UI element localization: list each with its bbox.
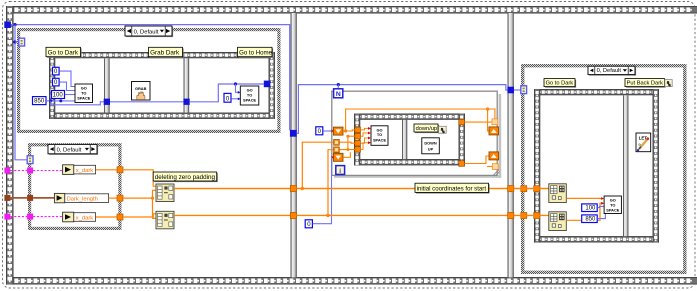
frame label Go to Home	[238, 47, 274, 58]
wire long orange 2 frame1 part	[174, 214, 290, 216]
node junction dot on 850 wire (1)	[49, 99, 52, 102]
tunnel separator B/C (blue)	[183, 99, 189, 105]
wire x_dark2 magenta outside	[10, 216, 27, 218]
constant 0 (SR1 init)	[316, 127, 323, 135]
op Array Subset 1	[156, 184, 174, 202]
wire main blue across top and down to separator 1	[11, 25, 290, 131]
shift register right 2 (up)	[489, 152, 499, 160]
pin coercion arrow case3 #1	[601, 197, 604, 200]
inner sequence 3 bottom film band	[534, 236, 659, 242]
wire 850 to subVI bottom	[597, 214, 605, 219]
tunnel x_dark2 case2 (magenta)	[27, 214, 33, 220]
tunnel separator2 blue	[507, 87, 514, 94]
wire T3 to subVI	[360, 138, 368, 143]
inner sequence 3 left film band	[534, 89, 540, 243]
svg-text:down/up?: down/up?	[416, 126, 441, 132]
wire orange 2 into index array 2	[514, 214, 549, 216]
inner sequence 2 top film band	[354, 114, 465, 120]
wire stub bottom-right tunnel	[487, 166, 492, 168]
wire branch to case-1 selector	[15, 41, 19, 43]
wire x_dark1 out (orange)	[96, 169, 117, 171]
inner sequence 2 left film band	[354, 114, 360, 166]
tunnel x_dark1 outer (magenta)	[4, 168, 10, 174]
wire Dark_length to junction	[123, 197, 153, 199]
svg-text:0, Default: 0, Default	[134, 30, 159, 36]
node junction orange A	[301, 187, 304, 190]
op sub-VI DOWN UP	[422, 138, 440, 154]
wire T1 to subVI	[360, 128, 368, 130]
constant 0 (frame 1A #2)	[53, 78, 60, 86]
outer flat sequence left film band	[6, 6, 14, 285]
tunnel separator2 orange 1	[508, 186, 514, 192]
svg-text:UP: UP	[428, 147, 434, 152]
op Index Array 2	[549, 212, 567, 231]
case 3 selector label 0, Default	[588, 66, 636, 76]
wire blue to case3 selector	[514, 89, 521, 91]
inner sequence 3 top film band	[534, 89, 659, 95]
case 2 selector label 0, Default	[48, 144, 98, 155]
svg-text:x_dark: x_dark	[76, 168, 94, 174]
case 1 selector tunnel	[19, 38, 25, 46]
op sub-VI GO TO SPACE (case 3)	[604, 196, 621, 214]
wire branch up to loop tunnel B	[328, 150, 334, 216]
case structure 1 border	[17, 28, 281, 133]
svg-text:100: 100	[585, 206, 596, 212]
local variable x_dark (1)	[63, 165, 96, 175]
outer sequence frame separator 1	[291, 13, 297, 277]
wire bottom 0 up to SR2	[313, 157, 332, 223]
svg-text:850: 850	[585, 217, 596, 223]
tunnel case2 right 3 (orange)	[117, 214, 123, 220]
wire 0 to subVI input	[231, 98, 238, 100]
wire orange 1 into index array 1	[514, 188, 549, 190]
wire branch up to loop tunnel A	[302, 142, 333, 188]
wire selector feed down left side	[15, 25, 27, 160]
node junction at T2 wire	[346, 135, 349, 138]
wire lower branch to separator tunnel	[51, 101, 104, 105]
inner sequence 1 right film band	[269, 52, 275, 119]
inner sequence 1 separator B/C	[184, 58, 190, 112]
case 2 selector tunnel	[27, 156, 33, 164]
tunnel separator1 orange 2	[290, 212, 296, 218]
tunnel loop-right bottom (hollow)	[492, 164, 498, 170]
svg-text:850: 850	[34, 99, 45, 105]
wire branch down to array subset 2	[153, 198, 157, 218]
wire Dark_length brown outside	[10, 197, 27, 199]
svg-text:SPACE: SPACE	[243, 98, 257, 103]
local variable x_dark (2)	[63, 212, 96, 222]
constant 850 (frame 1A)	[33, 97, 47, 105]
wire over top of inner sequence to SR right 1	[346, 109, 489, 131]
inner sequence 2 separator	[402, 120, 407, 159]
wire T4 to subVI	[360, 143, 368, 150]
inner sequence 1 top film band	[49, 52, 275, 58]
op LET write icon (Put Back Dark frame)	[636, 133, 651, 152]
svg-text:Go to Home: Go to Home	[239, 50, 272, 57]
constant 0 (frame 1C)	[224, 93, 231, 102]
wire Tr2 to SR right 2	[464, 156, 489, 164]
wire tunnel1 to array subset 1	[123, 170, 156, 186]
wire long orange 1 frame1 part	[174, 188, 290, 190]
label deleting zero padding	[153, 172, 218, 182]
outer flat sequence bottom film band	[6, 277, 697, 285]
case 3 selector tunnel	[521, 86, 527, 94]
constant 100 (case 3)	[582, 204, 598, 212]
tunnel T3	[355, 140, 361, 146]
wire 850 to subVI	[46, 100, 75, 102]
wire SR1 to T1	[343, 130, 355, 131]
node junction dot on 850 wire (2)	[59, 99, 62, 102]
svg-text:i: i	[339, 168, 341, 175]
tunnel main input (blue, outer left band)	[4, 21, 11, 28]
wire to N terminal	[337, 85, 339, 89]
svg-text:N: N	[336, 91, 341, 98]
frame label Go to Dark	[46, 47, 82, 58]
inner sequence 1 bottom film band	[49, 113, 275, 119]
pin coercion dot SR2	[331, 156, 334, 159]
shift register left 1 (down)	[333, 127, 343, 135]
svg-text:initial coordinates for start: initial coordinates for start	[417, 185, 487, 192]
pin input arrow 2 (frame 1C)	[238, 98, 241, 101]
wire long orange 2 frame2 part	[297, 214, 508, 216]
wire Tr1 to loop tunnel	[464, 121, 492, 123]
wire tunnel3 to array subset 2	[123, 214, 156, 217]
wire branch down into subVI	[236, 84, 239, 92]
outer flat sequence top film band	[6, 6, 697, 14]
wire N feed up and across to frame 3	[297, 85, 508, 134]
wire 100 to subVI	[597, 206, 604, 207]
frame label Put Back Dark	[625, 79, 666, 88]
wire x_dark2 magenta inside	[33, 216, 62, 218]
wire x_dark1 magenta inside	[33, 170, 62, 172]
wire 0#1 to subVI	[59, 71, 75, 86]
wire branch up to array subset 1	[153, 190, 157, 198]
wire x_dark1 magenta outside	[10, 170, 27, 172]
svg-text:GRAB: GRAB	[135, 86, 147, 91]
node junction orange B	[326, 214, 329, 217]
tunnel loop-right top (hollow)	[492, 119, 498, 125]
inner sequence 2 right film band	[459, 114, 465, 166]
wire long orange 1 frame2 part	[297, 188, 508, 190]
for loop border	[332, 91, 501, 178]
frame label Grab Dark	[149, 47, 184, 58]
wire 0 to SR1	[323, 130, 332, 132]
svg-text:0, Default: 0, Default	[57, 147, 82, 153]
wire pass through frame B	[110, 101, 183, 103]
inner sequence 1 separator A/B	[104, 58, 110, 112]
tunnel separator A/B (blue)	[104, 99, 110, 105]
tunnel x_dark1 case2 (magenta)	[27, 168, 33, 174]
icon cursor glyph beside down/up	[439, 126, 447, 133]
node junction top right	[486, 107, 489, 110]
wire frame C rise and run	[190, 84, 264, 102]
tunnel case2 right 2 (orange)	[117, 195, 123, 201]
node junction at case-1 selector branch	[13, 40, 16, 43]
tunnel T1 inner seq2 left	[355, 127, 361, 133]
for loop i terminal	[336, 166, 345, 175]
tunnel inner seq2 right 1	[459, 119, 465, 125]
node junction TB branch	[346, 148, 349, 151]
tunnel separator1 orange 1	[290, 186, 296, 192]
wire SR2 short riser	[343, 152, 350, 157]
op sub-VI GRAB (frame 1B)	[132, 82, 151, 101]
wire Dark_length brown inside	[33, 197, 54, 199]
tunnel loop-left B (orange)	[334, 147, 340, 153]
frame label down/up?	[414, 124, 440, 133]
tunnel loop-left A (orange)	[334, 140, 340, 146]
constant 0 (frame 1A #1)	[53, 67, 60, 75]
node junction frame C	[234, 82, 237, 85]
case 1 selector label 0, Default	[125, 26, 173, 37]
svg-text:100: 100	[53, 93, 64, 99]
local variable Dark_length	[54, 193, 108, 202]
pin input arrow 1 (frame 1C)	[238, 91, 241, 94]
svg-text:x_dark: x_dark	[76, 216, 94, 222]
op sub-VI GO TO SPACE (loop)	[371, 126, 388, 146]
svg-text:Go to Dark: Go to Dark	[546, 81, 574, 87]
wire 0#2 to subVI	[59, 82, 75, 90]
inner sequence 2 bottom film band	[354, 159, 465, 165]
svg-text:0, Default: 0, Default	[597, 68, 622, 74]
svg-text:Go to Dark: Go to Dark	[48, 50, 79, 57]
wire x_dark2 out (orange)	[96, 216, 117, 218]
svg-text:deleting zero padding: deleting zero padding	[155, 174, 216, 181]
pin coercion arrow 4	[368, 141, 371, 144]
wire stub to loop-right tunnel	[488, 109, 495, 119]
tunnel Dark_length outer (brown)	[4, 195, 10, 201]
inner sequence 1 left film band	[49, 52, 55, 119]
svg-text:SPACE: SPACE	[373, 137, 387, 142]
svg-text:SPACE: SPACE	[77, 96, 91, 101]
constant 0 (SR2 init, bottom)	[305, 220, 312, 228]
svg-text:Dark_length: Dark_length	[67, 197, 98, 203]
wire 100 to subVI	[65, 94, 75, 96]
svg-text:Put Back Dark: Put Back Dark	[627, 81, 664, 87]
shift register right 1 (up)	[489, 127, 499, 135]
tunnel T4	[355, 147, 361, 153]
tunnel case2 right 1 (orange)	[117, 167, 123, 173]
svg-text:SPACE: SPACE	[606, 208, 620, 213]
inner sequence 3 separator	[623, 95, 628, 236]
wire branch up to T2	[348, 136, 355, 149]
constant 850 (case 3)	[582, 215, 598, 223]
wire tunnel B to T4	[339, 148, 355, 150]
icon cursor glyph beside Put Back Dark	[665, 80, 672, 87]
frame label Go to Dark (case3)	[544, 79, 576, 88]
wire Dark_length out (orange)	[109, 197, 117, 199]
node junction Dark_length split	[151, 197, 154, 200]
node junction N drop	[337, 83, 340, 86]
pin coercion arrow 1	[368, 127, 371, 130]
wire tunnel A to T3	[339, 142, 355, 143]
tunnel x_dark2 outer (magenta)	[4, 214, 10, 220]
case structure 2 border	[28, 143, 122, 230]
tunnel inner seq3 left orange 2	[534, 213, 540, 219]
wire index2 out to subVI	[566, 203, 601, 220]
tunnel frame C output (blue)	[264, 81, 271, 88]
pin coercion dot SR1	[331, 130, 334, 133]
shift register left 2 (down)	[333, 153, 343, 161]
case structure 3 border	[521, 64, 687, 274]
pin coercion arrow case3 #2	[601, 202, 604, 205]
tunnel case3 left orange 2	[521, 213, 527, 219]
outer sequence frame separator 2	[508, 13, 514, 277]
pin coercion arrow 3	[368, 137, 371, 140]
tunnel Dark_length case2 (brown)	[27, 195, 33, 201]
tunnel T2	[355, 133, 361, 139]
op Index Array 1	[549, 184, 567, 203]
wire T2 to subVI	[360, 133, 368, 136]
op sub-VI GO TO SPACE (frame 1C)	[240, 86, 258, 105]
pin coercion arrow 2	[368, 132, 371, 135]
op Array Subset 2	[156, 211, 174, 229]
node junction over-top branch	[344, 129, 347, 132]
op sub-VI GO TO SPACE (frame 1A)	[75, 84, 93, 103]
for loop N terminal	[334, 89, 343, 98]
constant 100 (frame 1A)	[52, 91, 65, 99]
wire index1 out to subVI	[566, 197, 601, 199]
svg-text:DOWN: DOWN	[424, 141, 437, 146]
tunnel case3 left orange 1	[521, 186, 527, 192]
loop corner resize glyph	[494, 170, 500, 176]
tunnel separator2 orange 2	[508, 212, 514, 218]
label initial coordinates for start	[415, 183, 490, 193]
svg-text:Grab Dark: Grab Dark	[150, 50, 180, 57]
node junction on main wire	[13, 23, 16, 26]
inner sequence 3 right film band	[653, 89, 659, 243]
tunnel inner seq2 right 2	[459, 161, 465, 167]
tunnel separator1 blue (N feed)	[290, 130, 297, 137]
tunnel inner seq3 left orange 1	[534, 186, 540, 192]
